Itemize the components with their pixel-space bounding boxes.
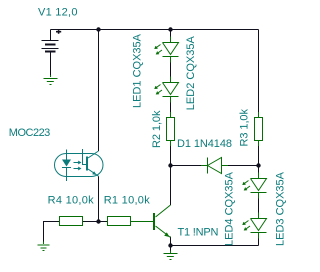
svg-text:R3 1,0k: R3 1,0k (239, 109, 251, 147)
svg-text:D1 1N4148: D1 1N4148 (177, 138, 232, 150)
svg-text:R1 10,0k: R1 10,0k (104, 194, 151, 206)
svg-text:R2 1,0k: R2 1,0k (151, 110, 163, 148)
svg-text:LED2 CQX35A: LED2 CQX35A (185, 36, 197, 111)
svg-text:LED4 CQX35A: LED4 CQX35A (224, 171, 236, 246)
svg-text:LED1 CQX35A: LED1 CQX35A (131, 33, 143, 108)
svg-text:LED3 CQX35A: LED3 CQX35A (275, 171, 287, 246)
svg-text:T1 !NPN: T1 !NPN (178, 227, 219, 239)
svg-text:V1 12,0: V1 12,0 (38, 7, 78, 19)
svg-text:MOC223: MOC223 (9, 127, 51, 139)
svg-text:R4 10,0k: R4 10,0k (48, 194, 95, 206)
